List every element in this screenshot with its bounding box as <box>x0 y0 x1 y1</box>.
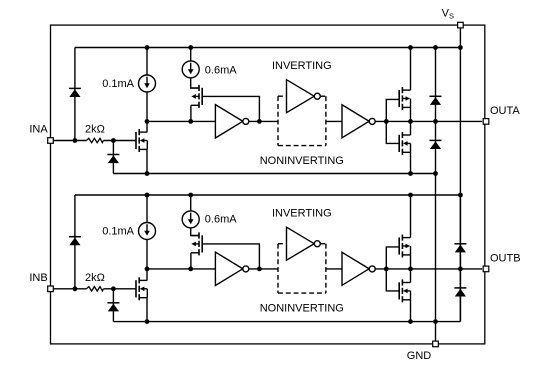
diode: channel B lower input clamp (to bottom rail) <box>107 303 119 312</box>
node: channel B rail tap diode column <box>458 193 463 198</box>
node: channel A post-resistor node <box>111 138 116 143</box>
svg-text:0.1mA: 0.1mA <box>102 226 134 238</box>
diode: channel B upper output clamp <box>454 244 466 253</box>
terminal INA <box>48 138 54 144</box>
current source 0.1mA channel A <box>139 75 156 92</box>
wire: channel A PMOS source to output <box>410 107 412 121</box>
wire: channel A 0.1mA feed from rail <box>146 48 148 76</box>
wire: channel A input FET source to bottom rail <box>146 149 148 173</box>
wire: channel A NMOS source to bottom rail <box>410 152 412 173</box>
transistor: channel A output NMOS <box>399 132 410 155</box>
IC boundary box <box>51 25 485 344</box>
node: channel A rail tap PMOS <box>408 45 413 50</box>
node: channel A NMOS source junction <box>408 171 413 176</box>
wire: channel A PMOS drain to rail <box>410 48 412 91</box>
diode: channel A upper output clamp <box>430 96 442 105</box>
option box: channel A dashed inverting/noninverting select <box>278 96 326 145</box>
wire: channel A 0.6mA feed from rail <box>190 48 192 62</box>
transistor: channel B output PMOS <box>399 235 410 258</box>
node: channel A output node at FETs <box>408 119 413 124</box>
wire: channel A lower clamp column <box>112 141 114 174</box>
inverter: channel B optional inverting stage <box>287 227 315 260</box>
wire: channel B 0.6mA feed from rail <box>190 195 192 211</box>
node: channel B inverter1 output node <box>257 267 262 272</box>
terminal INB <box>48 286 54 292</box>
node: channel B rail tap PMOS <box>408 193 413 198</box>
wire: channel A output gate bus <box>386 99 399 143</box>
wire: channel B lower clamp column <box>112 289 114 322</box>
wire: channel B option box to inverter2 <box>326 268 342 270</box>
inversion bubble: channel A second inverter <box>369 118 375 124</box>
wire: channel B 0.1mA output to node <box>146 240 148 269</box>
node: channel B post-resistor node <box>111 286 116 291</box>
current source 0.6mA channel A <box>182 61 199 78</box>
node: channel A hysteresis source junction <box>188 119 193 124</box>
node: channel A rail tap diode column <box>433 45 438 50</box>
wire: INB input wire <box>53 288 86 290</box>
svg-text:GND: GND <box>407 350 432 362</box>
inversion bubble: channel A first inverter <box>243 118 249 124</box>
diode: channel B upper input clamp (to V_S rail) <box>69 237 81 246</box>
wire: channel B hysteresis gate feedback <box>202 244 259 269</box>
terminal V_S <box>458 22 464 28</box>
node: channel B rail tap 0.6mA <box>188 193 193 198</box>
wire: channel B 0.1mA feed from rail <box>146 195 148 223</box>
svg-text:INVERTING: INVERTING <box>272 207 332 219</box>
wire: channel A NMOS drain to output <box>410 121 412 135</box>
option box: channel B dashed inverting/noninverting select <box>278 244 326 293</box>
node: channel A rail tap 0.1mA <box>145 45 150 50</box>
transistor: channel B output NMOS <box>399 279 410 302</box>
current source 0.1mA channel B <box>139 223 156 240</box>
diode: channel A lower output clamp <box>430 140 442 149</box>
node: channel A bottom-rail tap GND column <box>433 171 438 176</box>
svg-text:OUTB: OUTB <box>490 252 521 264</box>
svg-text:0.1mA: 0.1mA <box>102 78 134 90</box>
inversion bubble: channel B second inverter <box>369 266 375 272</box>
resistor 2kΩ channel A <box>86 138 103 142</box>
wire: channel B PMOS source to output <box>410 255 412 269</box>
terminal OUTA <box>483 119 489 125</box>
wire: channel B hysteresis FET source to node <box>190 253 192 269</box>
svg-text:2kΩ: 2kΩ <box>85 124 105 136</box>
wire: channel B gate wire after resistor <box>103 288 135 290</box>
node: INA input node <box>73 138 78 143</box>
node: channel B rail tap 0.1mA <box>145 193 150 198</box>
node: channel B output node at FETs <box>408 267 413 272</box>
node: channel B gate-bus tap <box>384 267 389 272</box>
node: channel A rail tap 0.6mA <box>188 45 193 50</box>
transistor: channel A hysteresis PMOS <box>191 85 202 108</box>
wire: V_S feed down right side (to both channels) <box>459 28 461 322</box>
wire: channel B output gate bus <box>386 247 399 291</box>
wire: GND feed column <box>435 174 437 342</box>
svg-text:INA: INA <box>29 124 48 136</box>
wire: channel A 0.1mA output to node <box>146 92 148 121</box>
wire: OUTA output line <box>375 120 482 122</box>
wire: channel B NMOS drain to output <box>410 269 412 283</box>
wire: channel B input clamp column to rail <box>74 195 76 289</box>
diode: channel B lower output clamp <box>454 288 466 297</box>
node: channel B NMOS source junction <box>408 319 413 324</box>
svg-text:2kΩ: 2kΩ <box>85 272 105 284</box>
node: channel A gate-bus tap <box>384 119 389 124</box>
svg-text:NONINVERTING: NONINVERTING <box>260 303 344 315</box>
inverter: channel A second inverter <box>342 105 369 138</box>
inverter: channel A first inverter <box>215 105 242 138</box>
wire: channel A 0.6mA to hysteresis FET drain <box>191 78 199 88</box>
node: INB input node <box>73 286 78 291</box>
svg-text:OUTA: OUTA <box>490 105 520 117</box>
wire: channel B input FET drain to node <box>146 269 148 281</box>
inversion bubble: channel A optional inverter <box>314 93 320 99</box>
transistor: channel A input NMOS <box>136 129 147 152</box>
wire: channel A hysteresis gate feedback <box>202 96 259 121</box>
node: channel B output tap diode column <box>458 267 463 272</box>
wire: channel A comparator node line <box>147 120 215 122</box>
svg-text:INVERTING: INVERTING <box>272 60 332 72</box>
node: channel A input FET source junction <box>145 171 150 176</box>
wire: channel A option box to inverter2 <box>326 120 342 122</box>
wire: channel A input clamp column to rail <box>74 48 76 141</box>
wire: channel B top supply rail <box>75 194 461 196</box>
wire: channel A output clamp diode column <box>435 48 437 174</box>
wire: channel A bottom rail <box>113 173 435 175</box>
transistor: channel A output PMOS <box>399 87 410 110</box>
terminal GND <box>433 341 439 347</box>
wire: channel A top supply rail <box>75 47 461 49</box>
svg-text:NONINVERTING: NONINVERTING <box>260 155 344 167</box>
svg-text:INB: INB <box>29 272 47 284</box>
inversion bubble: channel B optional inverter <box>314 241 320 247</box>
node: channel B hysteresis source junction <box>188 267 193 272</box>
inversion bubble: channel B first inverter <box>243 266 249 272</box>
node: channel A inverter1 output node <box>257 119 262 124</box>
wire: channel A gate wire after resistor <box>103 140 135 142</box>
wire: channel A hysteresis FET source to node <box>190 105 192 121</box>
svg-text:0.6mA: 0.6mA <box>205 65 237 77</box>
wire: channel B output clamp diode column <box>459 195 461 322</box>
node: channel B input FET source junction <box>145 319 150 324</box>
inverter: channel B first inverter <box>215 252 242 285</box>
wire: INA input wire <box>53 140 86 142</box>
node: channel A rail tap V_S feed <box>458 45 463 50</box>
svg-text:0.6mA: 0.6mA <box>205 214 237 226</box>
wire: channel B inverter1 output <box>249 268 278 270</box>
transistor: channel B input NMOS <box>136 277 147 300</box>
wire: OUTB output line <box>375 268 482 270</box>
inverter: channel B second inverter <box>342 252 369 285</box>
node: GND tap on channel B bottom rail <box>433 319 438 324</box>
current source 0.6mA channel B <box>182 211 199 228</box>
diode: channel A lower input clamp (to bottom rail) <box>107 155 119 164</box>
wire: channel B bottom rail <box>113 321 460 323</box>
node: channel A output tap diode column <box>433 119 438 124</box>
wire: channel B 0.6mA to hysteresis FET drain <box>191 228 199 236</box>
wire: channel B PMOS drain to rail <box>410 195 412 238</box>
inverter: channel A optional inverting stage <box>287 80 315 113</box>
wire: channel A input FET drain to node <box>146 121 148 132</box>
wire: channel B input FET source to bottom rail <box>146 298 148 322</box>
transistor: channel B hysteresis PMOS <box>191 232 202 255</box>
diode: channel A upper input clamp (to V_S rail) <box>69 88 81 97</box>
terminal OUTB <box>483 266 489 272</box>
resistor 2kΩ channel B <box>86 287 103 291</box>
node: channel A main node (0.1mA/drain) <box>145 119 150 124</box>
node: channel B main node (0.1mA/drain) <box>145 267 150 272</box>
wire: channel B NMOS source to bottom rail <box>410 300 412 322</box>
wire: channel A inverter1 output <box>249 120 278 122</box>
wire: channel B comparator node line <box>147 268 215 270</box>
